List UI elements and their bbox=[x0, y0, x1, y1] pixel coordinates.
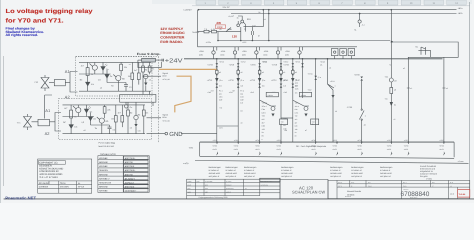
resistor R9 (A2) bbox=[142, 110, 145, 116]
driver chain 2 bbox=[228, 58, 245, 142]
resistor R8 (A2) bbox=[127, 110, 130, 116]
transistor Q70 bbox=[389, 78, 393, 82]
module A1 right section rails bbox=[141, 62, 152, 91]
title block right grid bbox=[328, 180, 470, 198]
relay K10 box bbox=[390, 42, 458, 57]
fuse distribution rail bbox=[198, 46, 358, 48]
terminal descriptions bbox=[209, 166, 221, 177]
relay coil label K3 (boxed) bbox=[266, 92, 278, 96]
wires to interconnect block bbox=[126, 91, 153, 106]
wires around Q10/Q11 bbox=[238, 16, 246, 32]
bus +B1a 24V DC bbox=[198, 9, 456, 11]
feeder fuse boxes bbox=[332, 49, 339, 56]
LED D1 (A2) bbox=[84, 109, 88, 113]
chassis rail bbox=[195, 161, 469, 164]
driver chain 3 bbox=[250, 58, 267, 142]
dashed wire module A1 top to main sheet bbox=[76, 56, 159, 58]
resistor R10 bbox=[204, 30, 209, 33]
return wire a bbox=[407, 57, 410, 142]
12V supply note (red) bbox=[160, 27, 185, 44]
wire module A1 to main fuse bbox=[138, 59, 142, 61]
resistor R1 (A1) bbox=[86, 68, 89, 76]
sheet left border bbox=[3, 56, 5, 186]
relay coil label K5 (boxed) bbox=[299, 92, 311, 96]
connector X3 lower bbox=[258, 84, 261, 86]
sheet bottom border bbox=[4, 198, 474, 200]
module A2 internal wires bbox=[71, 105, 90, 134]
fuse F2 bbox=[234, 47, 236, 59]
connector arrow bbox=[360, 77, 363, 79]
title annotation (red heading) bbox=[6, 8, 93, 24]
connector X5 upper bbox=[292, 63, 295, 65]
bus +B1b bbox=[231, 13, 457, 15]
fuse F1 bbox=[213, 47, 215, 59]
module A2 right section rails bbox=[124, 105, 145, 134]
latch cluster B bbox=[293, 92, 319, 136]
resistor R9 (A1) bbox=[148, 66, 151, 72]
module A2 bottom rail bbox=[63, 133, 125, 135]
designer info table bbox=[38, 159, 92, 193]
approval cell bbox=[260, 178, 280, 181]
switch S1 bbox=[359, 111, 364, 120]
sheet number (red) bbox=[458, 190, 470, 198]
mesh stub a bbox=[217, 125, 238, 127]
interconnect block X5 bbox=[120, 95, 156, 103]
gnd link wire bbox=[181, 133, 217, 135]
scan left edge bbox=[0, 0, 1, 203]
wire: right feed bbox=[268, 10, 270, 41]
module A2 boundary (dashed) bbox=[59, 99, 152, 140]
connector X2 lower bbox=[237, 84, 240, 86]
connector X3 upper bbox=[258, 63, 261, 65]
sheet right border bbox=[469, 2, 471, 199]
wire: 12V output rail bbox=[198, 27, 241, 41]
fuse bypass wire bbox=[138, 60, 161, 67]
module A1 top rail bbox=[79, 61, 141, 63]
capacitor C10 bbox=[252, 27, 254, 41]
module A1 right section wires bbox=[143, 62, 150, 91]
module A1 internal wires bbox=[88, 62, 107, 91]
transistor Q3 (A2) bbox=[134, 115, 138, 119]
driver chain 1 bbox=[207, 58, 224, 142]
transistor Q4 (A2) bbox=[125, 105, 129, 109]
wire module A1 to signal box bbox=[143, 75, 162, 77]
diode D60 bbox=[331, 95, 334, 98]
rail 12V to relay box bbox=[218, 40, 390, 42]
resistor R70 bbox=[390, 88, 393, 94]
resistor R6 (A2) bbox=[114, 116, 117, 123]
feed wire from bus +B1a bbox=[390, 10, 392, 142]
zener D2 (A1) bbox=[105, 74, 109, 78]
resistor R23 bbox=[258, 70, 261, 74]
transistor Q51 bbox=[304, 107, 308, 111]
wire coil K2 to module A2 bbox=[55, 113, 61, 132]
latch cluster A bbox=[260, 92, 288, 125]
wire to pilot contact bbox=[260, 100, 277, 106]
svg-text:Pneumatic.NET: Pneumatic.NET bbox=[5, 196, 36, 201]
connector X5 lower bbox=[292, 84, 295, 86]
module A1 mid rail bbox=[79, 73, 111, 75]
wire link coils bbox=[45, 95, 52, 119]
module A2 top rail bbox=[63, 104, 125, 106]
solenoid valve Y70 bbox=[41, 75, 49, 91]
fuse F4 bbox=[277, 47, 279, 59]
zener D10 bbox=[226, 28, 232, 32]
resistor R8 (A1) bbox=[142, 66, 145, 72]
chain 315 bbox=[315, 59, 317, 142]
resistor R24 bbox=[280, 70, 283, 74]
diode D3 (A2) bbox=[69, 125, 73, 129]
wire: bus drop to converter bbox=[244, 10, 264, 27]
wire module A2 to GND terminal bbox=[147, 133, 165, 135]
fuse F5 bbox=[299, 47, 301, 59]
diode D24 bbox=[279, 78, 282, 82]
wire module A2 to signal box bbox=[147, 117, 162, 119]
bottom bus 0V bbox=[200, 141, 454, 143]
diode D5 (A2) bbox=[134, 124, 137, 127]
drawing type cell bbox=[280, 179, 328, 198]
relay K10 contact bbox=[421, 47, 426, 55]
wire chain 7 bbox=[328, 59, 334, 142]
terminal label (boxed) bbox=[311, 119, 319, 125]
resistor R11 bbox=[212, 30, 217, 33]
lower rail bbox=[200, 156, 454, 158]
resistor R1 (A2) bbox=[70, 110, 73, 118]
module A1 boundary (dashed) bbox=[76, 57, 153, 97]
resistor R7 (A1) bbox=[137, 73, 140, 80]
switch S2 bbox=[328, 84, 335, 88]
diode D25 bbox=[291, 78, 294, 82]
left net border bbox=[158, 57, 160, 144]
resistor R4 (A1) bbox=[120, 64, 123, 71]
fuse cell separators bbox=[217, 47, 303, 51]
module A2 right section wires bbox=[128, 105, 144, 134]
solenoid valve Y71 bbox=[24, 114, 32, 130]
diode D41 bbox=[271, 114, 274, 117]
pilot fuse F8 bbox=[359, 14, 361, 28]
diode D22 bbox=[237, 78, 240, 82]
diode D51 bbox=[304, 114, 307, 117]
main fuse F9 (9 Amp) bbox=[142, 58, 156, 62]
coil K2 (Y71) bbox=[38, 119, 50, 125]
wire switch chain bbox=[361, 81, 363, 143]
resistor R22 bbox=[237, 70, 240, 74]
junction dots on buses bbox=[198, 9, 200, 11]
transistor Q41 bbox=[271, 107, 275, 111]
diode D21 bbox=[215, 78, 218, 82]
diode D3 (A1) bbox=[86, 82, 90, 86]
diode D23 bbox=[258, 78, 261, 82]
wire valve Y70 to coil K1 bbox=[49, 82, 70, 84]
wire valve Y71 to coil K2 bbox=[32, 121, 56, 123]
orange signal wire bbox=[159, 69, 217, 112]
main bus +24V bbox=[184, 58, 443, 60]
GND terminal bbox=[165, 132, 168, 135]
terminal description (wide) bbox=[420, 165, 437, 180]
diode D5 (A1) bbox=[144, 83, 147, 86]
transistor Q2 (A2) bbox=[99, 118, 104, 123]
sheet column tabs bbox=[196, 0, 216, 5]
transistor Q1 (A2) bbox=[76, 108, 81, 113]
transistor Q10 bbox=[237, 24, 240, 27]
connector X1 lower bbox=[216, 84, 219, 86]
connector X2 upper bbox=[237, 63, 240, 65]
connector X4 upper bbox=[280, 63, 283, 65]
resistor R7 (A2) bbox=[121, 116, 124, 123]
transistor Q11 bbox=[241, 20, 244, 23]
resistor R25 bbox=[292, 70, 295, 74]
terminal label (boxed) bbox=[280, 119, 288, 125]
title block grid bbox=[187, 179, 280, 199]
transistor Q3 (A1) bbox=[144, 74, 148, 78]
return wire b bbox=[442, 57, 445, 142]
mesh stub b bbox=[281, 117, 293, 119]
red accents in supply circuit bbox=[215, 21, 237, 38]
wire fuse to +24V node bbox=[155, 59, 164, 62]
terminal row bbox=[212, 139, 218, 155]
wire coil K1 to module A1 bbox=[70, 72, 78, 93]
connector X6 bbox=[301, 63, 304, 65]
module A1 bottom rail bbox=[79, 90, 141, 92]
capacitor C1 (A2) bbox=[108, 127, 112, 129]
connector X1 upper bbox=[216, 63, 219, 65]
wire drop at 218 bbox=[217, 32, 219, 41]
credit annotation (blue) bbox=[6, 27, 44, 37]
resistor R6 (A1) bbox=[131, 73, 134, 80]
capacitor C1 (A1) bbox=[124, 85, 128, 87]
fuse F3 bbox=[255, 47, 257, 59]
LED D1 (A1) bbox=[101, 67, 105, 71]
wire chain 6 bbox=[302, 59, 304, 98]
wire: supply left drop bbox=[197, 10, 199, 47]
resistor R4 (A2) bbox=[103, 107, 106, 114]
driver chain 5 bbox=[283, 58, 300, 142]
diode D70 bbox=[390, 102, 393, 106]
transistor Q1 (A1) bbox=[92, 65, 97, 70]
connector X4 lower bbox=[280, 84, 283, 86]
coil K1 (Y70) bbox=[54, 80, 65, 86]
transistor Q2 (A1) bbox=[116, 76, 121, 81]
wire to pilot contact bbox=[293, 100, 310, 106]
module A2 mid rail bbox=[63, 116, 95, 118]
zener D2 (A2) bbox=[88, 117, 92, 121]
resistor R21 bbox=[216, 70, 219, 74]
driver chain 4 bbox=[271, 58, 288, 142]
